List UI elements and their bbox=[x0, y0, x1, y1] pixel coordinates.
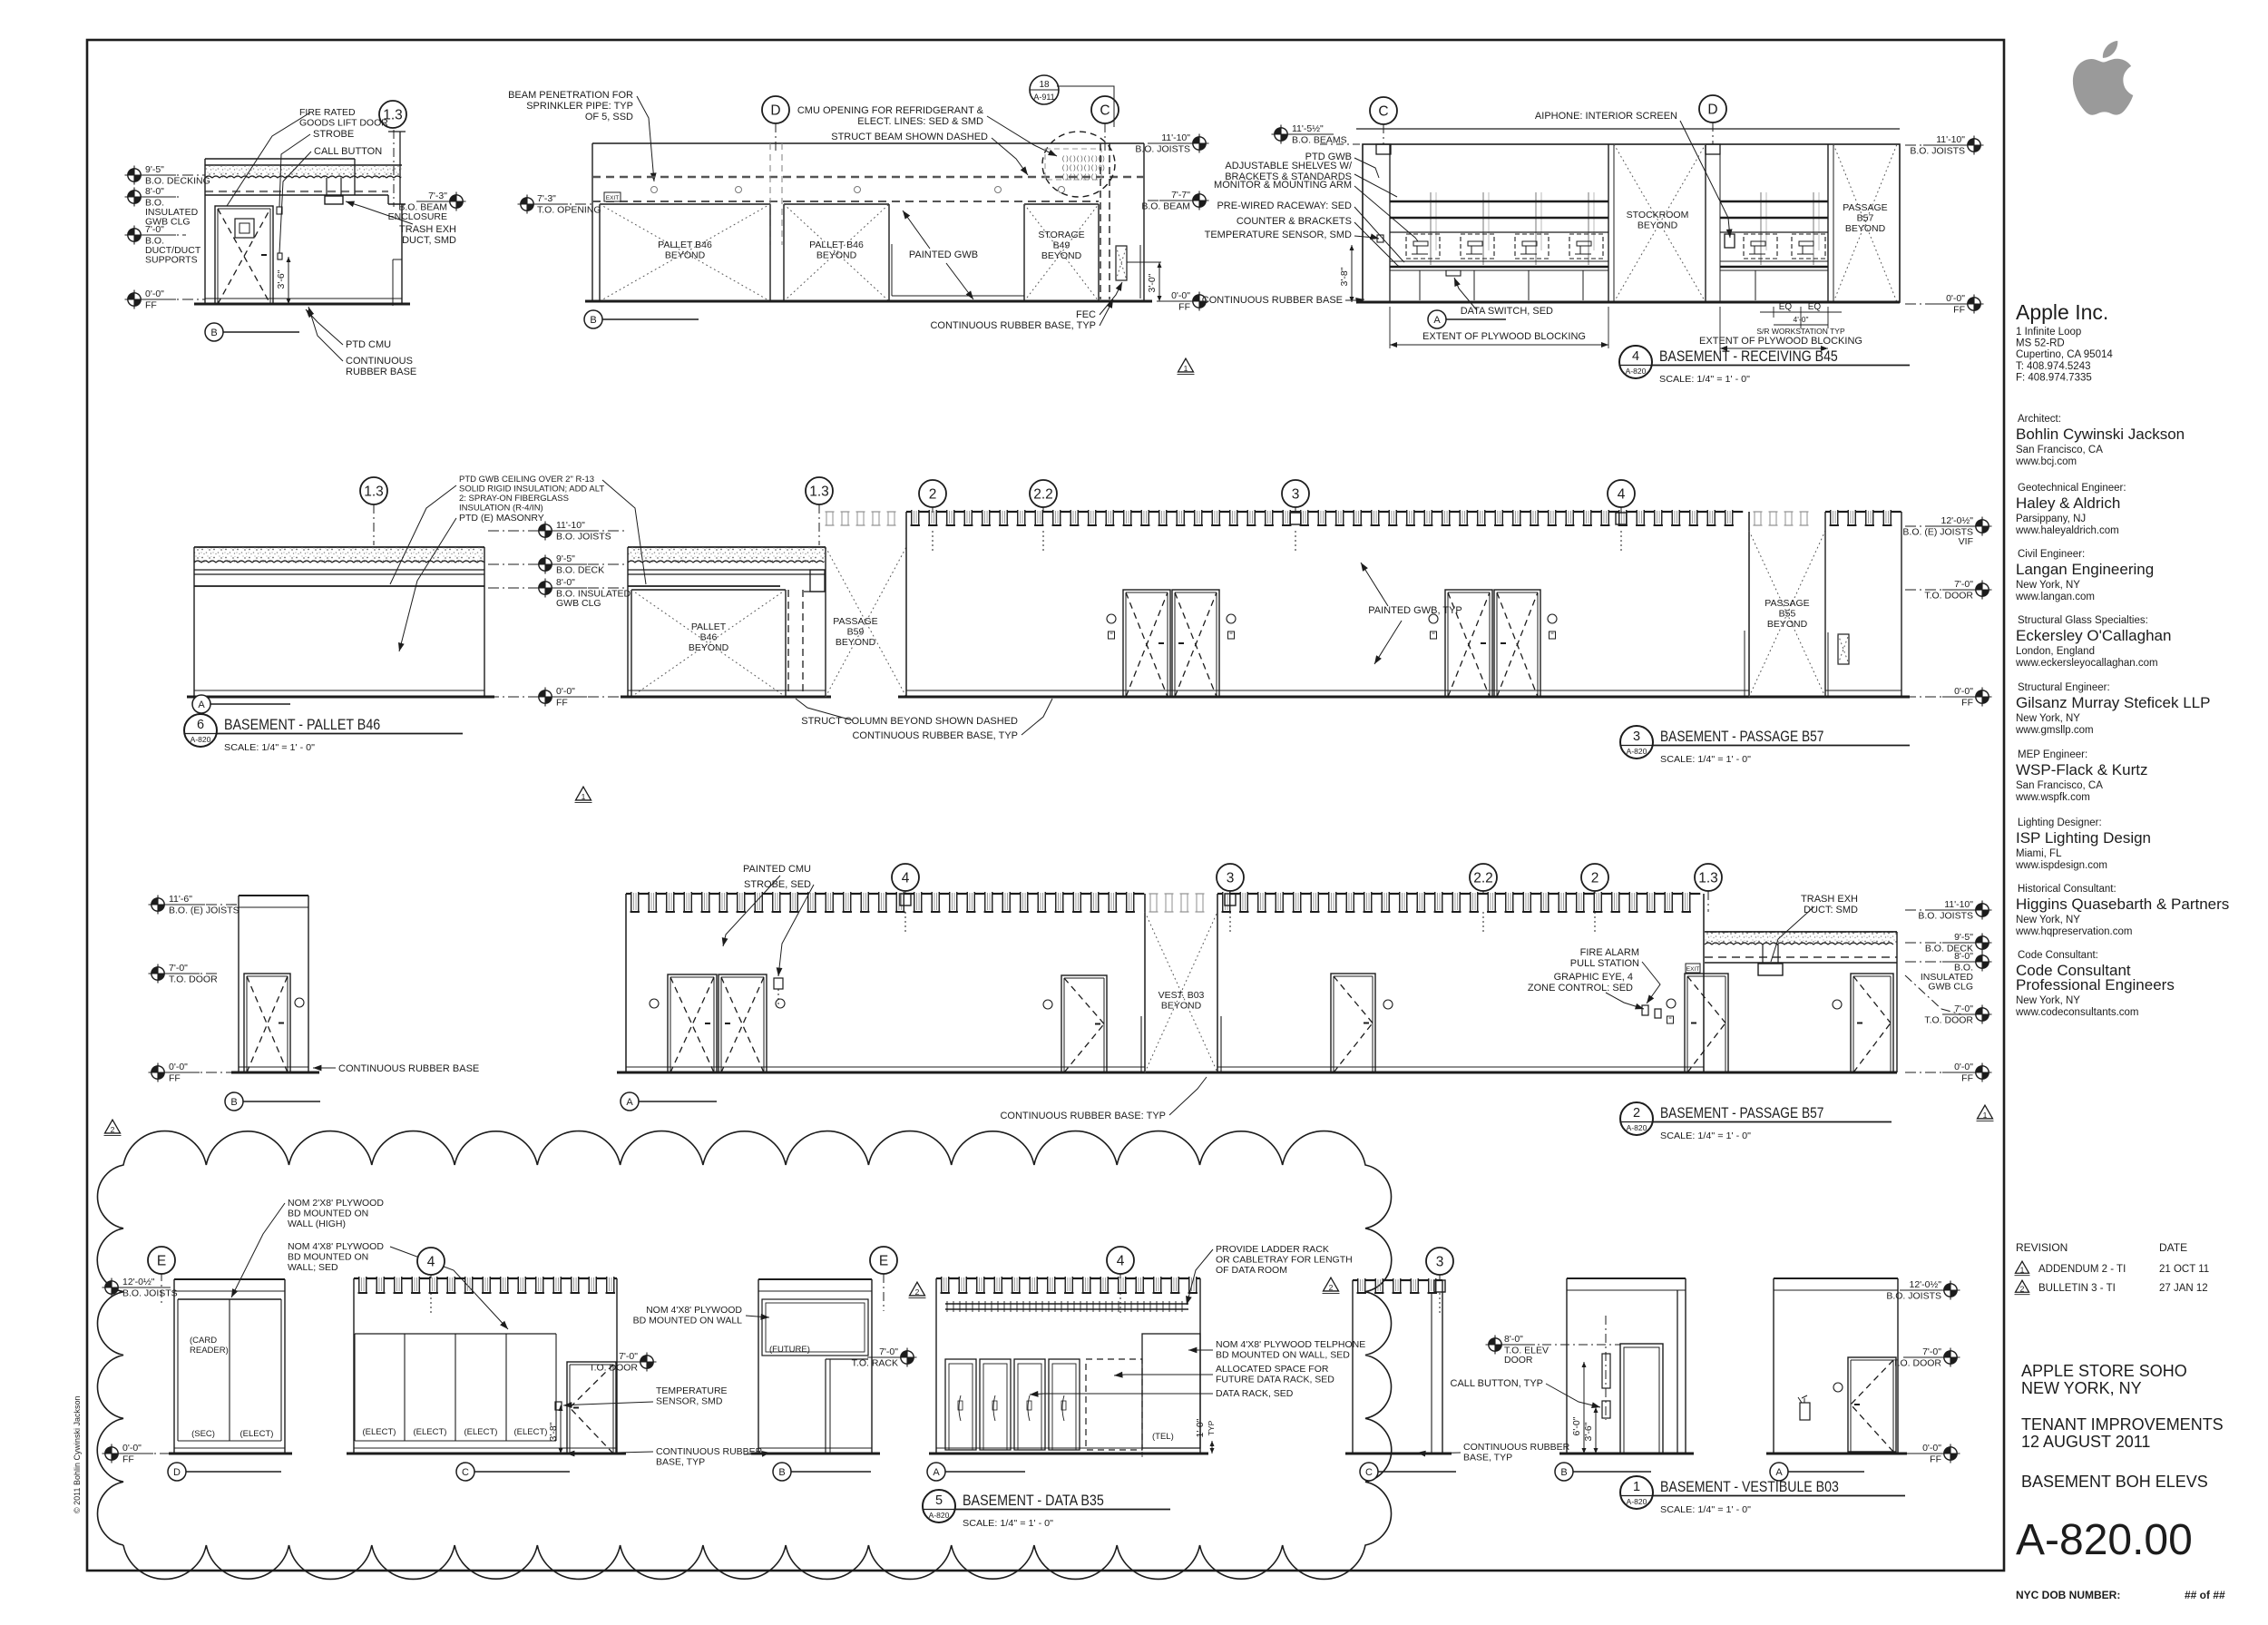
svg-text:BASE, TYP: BASE, TYP bbox=[656, 1457, 705, 1468]
svg-text:FF: FF bbox=[1961, 698, 1973, 709]
svg-text:BD MOUNTED ON: BD MOUNTED ON bbox=[288, 1252, 368, 1263]
vest A datum 7-0 TO DOOR bbox=[1903, 1356, 1943, 1358]
svg-text:1'-0": 1'-0" bbox=[1195, 1418, 1206, 1437]
grid bubble 2.2 band2 bbox=[1030, 480, 1057, 507]
warning triangle 1 band3 right bbox=[1978, 1105, 1993, 1119]
section marker A band3 bbox=[621, 1092, 639, 1111]
receiving right workstation area standards bbox=[1760, 192, 1762, 265]
svg-text:BEAM PENETRATION FOR: BEAM PENETRATION FOR bbox=[508, 90, 633, 101]
data racks 4 doors bbox=[945, 1359, 976, 1450]
strobe symbol band3 bbox=[774, 978, 783, 989]
svg-text:PASSAGE: PASSAGE bbox=[833, 616, 877, 627]
svg-text:T: 408.974.5243: T: 408.974.5243 bbox=[2016, 361, 2091, 372]
elevation B goods-lift: datum 0-0 FF bbox=[142, 299, 205, 300]
data D board divider and bottom bbox=[229, 1299, 230, 1441]
drawing 6 concrete deck band bbox=[194, 546, 484, 548]
svg-text:4: 4 bbox=[1618, 487, 1626, 503]
svg-text:MEP Engineer:: MEP Engineer: bbox=[2018, 749, 2087, 760]
svg-text:C: C bbox=[462, 1467, 469, 1478]
svg-text:TRASH EXH: TRASH EXH bbox=[399, 224, 456, 235]
warning triangle 2 near vest C bbox=[1324, 1277, 1339, 1291]
title 6 BASEMENT - PALLET B46 bbox=[184, 714, 217, 747]
band3 single door in wall A bbox=[1061, 975, 1107, 1072]
drawing 6 wall edges bbox=[193, 547, 195, 697]
svg-text:FF: FF bbox=[1930, 1454, 1941, 1465]
svg-text:8'-0": 8'-0" bbox=[1504, 1334, 1523, 1345]
aiphone interior screen box bbox=[1725, 234, 1735, 248]
vestibule elevation A: wall bbox=[1774, 1277, 1898, 1279]
grid bubble D band1 bbox=[762, 96, 789, 123]
svg-text:FF: FF bbox=[145, 300, 157, 311]
svg-text:2: SPRAY-ON FIBERGLASS: 2: SPRAY-ON FIBERGLASS bbox=[459, 494, 569, 504]
svg-text:STRUCT BEAM SHOWN DASHED: STRUCT BEAM SHOWN DASHED bbox=[831, 132, 988, 142]
grid bubble E data B bbox=[870, 1247, 897, 1274]
svg-text:PASSAGE: PASSAGE bbox=[1843, 202, 1887, 213]
data B35 elevation B: wall bbox=[758, 1278, 872, 1280]
band3 datum 7-0 TO DOOR bbox=[166, 973, 218, 974]
band3 right section edges bbox=[1896, 932, 1898, 1072]
svg-text:PALLET B46: PALLET B46 bbox=[809, 240, 864, 250]
band3 long wall piece A crenellated top bbox=[626, 893, 631, 895]
svg-text:0'-0": 0'-0" bbox=[122, 1443, 142, 1454]
svg-text:www.codeconsultants.com: www.codeconsultants.com bbox=[2015, 1007, 2139, 1018]
svg-text:Code Consultant:: Code Consultant: bbox=[2018, 950, 2098, 961]
band3 door pair knobs bbox=[650, 999, 659, 1008]
svg-text:New York, NY: New York, NY bbox=[2016, 713, 2080, 724]
EXIT sign band3 bbox=[1686, 964, 1700, 973]
svg-text:11'-10": 11'-10" bbox=[1936, 134, 1965, 145]
band3 rubber base lines bbox=[626, 1066, 1145, 1068]
grid bubble 2 band2 bbox=[919, 480, 946, 507]
svg-text:CONTINUOUS: CONTINUOUS bbox=[346, 356, 413, 367]
band2 long wall crenellated top bbox=[906, 511, 912, 513]
svg-text:Miami, FL: Miami, FL bbox=[2016, 848, 2062, 859]
data D board top bbox=[178, 1298, 281, 1300]
svg-text:1: 1 bbox=[1184, 364, 1188, 373]
band3 wall piece B crenellated top bbox=[1217, 893, 1223, 895]
svg-text:5: 5 bbox=[935, 1493, 943, 1508]
vest B floor bbox=[1559, 1453, 1694, 1455]
svg-text:6'-0": 6'-0" bbox=[1571, 1416, 1582, 1435]
svg-text:EXTENT OF PLYWOOD BLOCKING: EXTENT OF PLYWOOD BLOCKING bbox=[1699, 336, 1862, 347]
svg-text:www.haleyaldrich.com: www.haleyaldrich.com bbox=[2015, 525, 2119, 536]
svg-text:BASEMENT - PALLET B46: BASEMENT - PALLET B46 bbox=[224, 716, 380, 733]
svg-text:2: 2 bbox=[2020, 1284, 2025, 1293]
temperature sensor SMD symbol bbox=[1377, 235, 1383, 242]
grid bubble C receiving bbox=[1370, 97, 1397, 124]
drawing 6 wall top line bbox=[194, 546, 484, 548]
warning triangle 1 below drawing6 bbox=[576, 787, 591, 800]
svg-text:()()()()(): ()()()()() bbox=[1061, 174, 1098, 181]
svg-text:7'-3": 7'-3" bbox=[537, 193, 556, 204]
svg-text:VEST. B03: VEST. B03 bbox=[1158, 990, 1205, 1001]
elevation B goods-lift: datum 8-0 B.O. INSULATED GWB CLG bbox=[142, 196, 181, 198]
svg-text:1: 1 bbox=[1983, 1111, 1988, 1120]
svg-text:BASEMENT - RECEIVING B45: BASEMENT - RECEIVING B45 bbox=[1659, 348, 1838, 365]
revision row 1 bbox=[2016, 1261, 2029, 1273]
svg-text:(ELECT): (ELECT) bbox=[240, 1429, 274, 1439]
svg-text:BASEMENT BOH ELEVS: BASEMENT BOH ELEVS bbox=[2021, 1473, 2208, 1491]
band3 datum 0-0 FF bbox=[166, 1072, 231, 1073]
svg-text:()()()()()(): ()()()()()() bbox=[1061, 156, 1105, 163]
data D floor bbox=[169, 1453, 292, 1455]
svg-text:A-820: A-820 bbox=[1626, 367, 1647, 376]
svg-text:BEYOND: BEYOND bbox=[1041, 250, 1082, 261]
svg-text:7'-0": 7'-0" bbox=[619, 1351, 638, 1362]
receiving B45 counter bbox=[1390, 266, 1608, 269]
svg-text:C: C bbox=[1365, 1467, 1373, 1478]
svg-text:BEYOND: BEYOND bbox=[1767, 619, 1808, 630]
svg-text:B.O. JOISTS: B.O. JOISTS bbox=[1910, 146, 1965, 157]
svg-text:11'-5½": 11'-5½" bbox=[1292, 123, 1324, 134]
svg-text:BASEMENT - VESTIBULE B03: BASEMENT - VESTIBULE B03 bbox=[1660, 1478, 1839, 1495]
receiving right datums 11-10 BO JOISTS bbox=[1905, 144, 1967, 146]
data B datum 7-0 TO RACK bbox=[875, 1356, 900, 1358]
svg-text:Gilsanz Murray Steficek LLP: Gilsanz Murray Steficek LLP bbox=[2016, 694, 2210, 711]
svg-text:A: A bbox=[626, 1097, 633, 1108]
svg-text:(ELECT): (ELECT) bbox=[514, 1427, 548, 1437]
svg-text:STRUCT COLUMN BEYOND SHOWN DAS: STRUCT COLUMN BEYOND SHOWN DASHED bbox=[801, 716, 1018, 727]
svg-text:2.2: 2.2 bbox=[1033, 487, 1053, 503]
svg-text:E: E bbox=[879, 1254, 888, 1269]
band3 right section deck band bbox=[1705, 931, 1897, 933]
grid bubble 2.2 band3 bbox=[1470, 864, 1497, 891]
svg-text:WALL; SED: WALL; SED bbox=[288, 1262, 338, 1273]
gray dashed rect CMU opening bbox=[1045, 149, 1101, 180]
svg-text:BASEMENT - DATA B35: BASEMENT - DATA B35 bbox=[963, 1492, 1104, 1509]
receiving B45 floor line bbox=[1356, 301, 1900, 304]
sheet border frame bbox=[87, 40, 2004, 1571]
svg-text:2: 2 bbox=[915, 1287, 920, 1297]
svg-text:B.O. JOISTS: B.O. JOISTS bbox=[1918, 911, 1973, 922]
svg-text:B57: B57 bbox=[1857, 213, 1874, 224]
band3 door pair left leaf bbox=[668, 974, 717, 1072]
fire alarm pull station symbol bbox=[1642, 1005, 1648, 1015]
vest A datum 0-0 FF bbox=[1903, 1453, 1943, 1454]
receiving B45 inner left column line bbox=[1389, 144, 1391, 302]
right datum 0-0 FF band1 middle bbox=[1157, 300, 1192, 302]
svg-text:12 AUGUST 2011: 12 AUGUST 2011 bbox=[2021, 1433, 2150, 1451]
grid bubble E data bbox=[148, 1247, 175, 1274]
svg-text:CONTINUOUS RUBBER BASE: CONTINUOUS RUBBER BASE bbox=[338, 1063, 479, 1074]
svg-text:NOM 2'X8' PLYWOOD: NOM 2'X8' PLYWOOD bbox=[288, 1198, 384, 1209]
top-middle elevation: left edge bbox=[591, 143, 593, 301]
band3 small elevation door bbox=[244, 974, 290, 1072]
svg-text:PROVIDE LADDER RACK: PROVIDE LADDER RACK bbox=[1216, 1244, 1329, 1255]
svg-text:OR CABLETRAY FOR LENGTH: OR CABLETRAY FOR LENGTH bbox=[1216, 1255, 1353, 1266]
svg-text:A-820: A-820 bbox=[1627, 1123, 1647, 1132]
pallet B46 opening 2 with dotted X bbox=[783, 204, 785, 301]
svg-text:New York, NY: New York, NY bbox=[2016, 995, 2080, 1006]
svg-text:www.gmsllp.com: www.gmsllp.com bbox=[2015, 725, 2094, 736]
band2 rubber base lines bbox=[906, 690, 1749, 691]
grid bubble 2 band3 bbox=[1581, 864, 1608, 891]
band3 datums left 11-6 BO E JOISTS bbox=[166, 904, 239, 905]
svg-text:7'-0": 7'-0" bbox=[1922, 1346, 1941, 1357]
svg-text:SPRINKLER PIPE: TYP: SPRINKLER PIPE: TYP bbox=[526, 101, 633, 112]
svg-text:4: 4 bbox=[1117, 1254, 1125, 1269]
dim 3-0 storage height bbox=[1127, 261, 1161, 263]
receiving B45: datum 11-5half B.O. BEAMS bbox=[1272, 125, 1291, 144]
warning triangle 2 outside cloud top-left bbox=[105, 1120, 121, 1133]
svg-text:A-911: A-911 bbox=[1033, 93, 1054, 102]
svg-text:A: A bbox=[198, 700, 205, 710]
svg-text:()()()()()(): ()()()()()() bbox=[1061, 165, 1105, 172]
svg-text:B46: B46 bbox=[700, 632, 718, 643]
band2 right datum 7-0 TO DOOR bbox=[1905, 589, 1975, 591]
svg-text:11'-10": 11'-10" bbox=[1161, 132, 1190, 143]
ladder rack hatched strip bbox=[945, 1303, 1188, 1305]
stockroom beyond region bbox=[1608, 144, 1609, 302]
top-middle elevation: right edge bbox=[1143, 143, 1145, 301]
svg-text:New York, NY: New York, NY bbox=[2016, 915, 2080, 925]
band3 door at exit bbox=[1685, 974, 1728, 1072]
vest B03 beyond gap bbox=[1149, 894, 1151, 912]
svg-text:CONTINUOUS RUBBER: CONTINUOUS RUBBER bbox=[1463, 1442, 1570, 1453]
svg-text:2: 2 bbox=[111, 1125, 115, 1134]
svg-text:T.O. DOOR: T.O. DOOR bbox=[169, 974, 218, 985]
svg-text:C: C bbox=[1378, 104, 1388, 120]
svg-text:VIF: VIF bbox=[1959, 536, 1973, 547]
band2 long wall right edge bbox=[1748, 512, 1750, 697]
svg-text:www.langan.com: www.langan.com bbox=[2015, 592, 2095, 602]
pallet piece gwb ceiling bbox=[628, 585, 780, 587]
data B35 elevation D: wall bbox=[174, 1278, 285, 1280]
goods lift door window bbox=[235, 219, 254, 238]
pallet piece opening with dotted X bbox=[631, 590, 632, 697]
svg-text:PALLET: PALLET bbox=[691, 622, 727, 632]
svg-text:DUCT: SMD: DUCT: SMD bbox=[1804, 905, 1858, 915]
revision cloud bbox=[97, 1131, 1392, 1580]
grid bubble 4 band3 bbox=[892, 864, 919, 891]
passage B57 beyond region bbox=[1827, 144, 1829, 302]
svg-text:B.O. JOISTS: B.O. JOISTS bbox=[122, 1288, 178, 1299]
svg-text:PTD (E) MASONRY: PTD (E) MASONRY bbox=[459, 513, 544, 524]
svg-text:EQ: EQ bbox=[1779, 302, 1793, 312]
svg-text:London, England: London, England bbox=[2016, 646, 2095, 657]
svg-text:SCALE: 1/4" = 1' - 0": SCALE: 1/4" = 1' - 0" bbox=[224, 742, 315, 753]
warning triangle 1 band1 bbox=[1178, 358, 1194, 372]
warning triangle 2 near data B bbox=[910, 1282, 925, 1296]
data C floor bbox=[347, 1453, 626, 1455]
goods lift elevation: right wall edge bbox=[401, 204, 403, 304]
svg-text:T.O. OPENING: T.O. OPENING bbox=[537, 205, 601, 216]
dim 1-0 TYP data A bbox=[1141, 1379, 1143, 1457]
svg-text:B: B bbox=[1560, 1467, 1567, 1478]
svg-text:FF: FF bbox=[1178, 302, 1190, 313]
band3 wall B single door bbox=[1331, 974, 1375, 1072]
drawing 6 datum 9-5 BO DECK bbox=[488, 563, 624, 565]
band3 wall A left edge bbox=[625, 894, 627, 1072]
svg-text:NOM 4'X8' PLYWOOD TELPHONE: NOM 4'X8' PLYWOOD TELPHONE bbox=[1216, 1339, 1365, 1350]
svg-text:7'-0": 7'-0" bbox=[1954, 1003, 1973, 1014]
section marker B data bbox=[773, 1463, 791, 1481]
dim 3-6 call button height bbox=[288, 257, 289, 304]
svg-text:9'-5": 9'-5" bbox=[556, 553, 575, 564]
svg-text:A-820: A-820 bbox=[929, 1511, 950, 1520]
top-middle elevation: lower dashed line 7-3 level bbox=[592, 201, 1099, 202]
goods lift elevation: left wall edge bbox=[204, 159, 206, 304]
data C door bbox=[567, 1362, 616, 1454]
section marker B top-middle bbox=[584, 310, 602, 328]
svg-text:BEYOND: BEYOND bbox=[816, 250, 857, 261]
grid bubble 3 band2 bbox=[1282, 480, 1309, 507]
CMU chase dashed column bbox=[1100, 143, 1101, 299]
svg-text:CALL BUTTON: CALL BUTTON bbox=[314, 146, 382, 157]
svg-text:B: B bbox=[230, 1097, 237, 1108]
svg-text:Langan Engineering: Langan Engineering bbox=[2016, 561, 2154, 578]
svg-text:18: 18 bbox=[1039, 80, 1050, 90]
pallet piece: grid bubble 1.3 bbox=[806, 477, 833, 504]
svg-text:CONTINUOUS RUBBER BASE: TYP: CONTINUOUS RUBBER BASE: TYP bbox=[1000, 1111, 1166, 1121]
svg-text:4: 4 bbox=[1632, 349, 1639, 364]
svg-text:MS 52-RD: MS 52-RD bbox=[2016, 338, 2065, 349]
svg-text:APPLE STORE SOHO: APPLE STORE SOHO bbox=[2021, 1362, 2187, 1380]
svg-text:TEMPERATURE: TEMPERATURE bbox=[656, 1385, 728, 1396]
svg-text:T.O. RACK: T.O. RACK bbox=[852, 1358, 898, 1369]
svg-text:0'-0": 0'-0" bbox=[1954, 686, 1973, 697]
svg-text:A-820: A-820 bbox=[1627, 1497, 1647, 1506]
svg-text:0'-0": 0'-0" bbox=[1946, 293, 1965, 304]
svg-text:8'-0": 8'-0" bbox=[145, 186, 164, 197]
svg-text:(ELECT): (ELECT) bbox=[363, 1427, 396, 1437]
section marker A drawing6 bbox=[192, 695, 210, 713]
svg-text:12'-0½": 12'-0½" bbox=[1941, 515, 1973, 526]
svg-text:SENSOR, SMD: SENSOR, SMD bbox=[656, 1396, 723, 1407]
band2 long wall: light joist ticks beyond at left bbox=[826, 512, 827, 525]
grid bubble 4 band2 bbox=[1608, 480, 1635, 507]
sprinkler pipe circles typ of 5 bbox=[651, 187, 658, 193]
telephone board rect bbox=[1142, 1334, 1200, 1448]
grid bubble 3 vest bbox=[1426, 1248, 1453, 1275]
svg-text:Higgins Quasebarth & Partners: Higgins Quasebarth & Partners bbox=[2016, 896, 2229, 913]
goods lift elevation: concrete deck band bbox=[205, 164, 402, 166]
svg-text:FF: FF bbox=[1961, 1073, 1973, 1084]
svg-text:ZONE CONTROL: SED: ZONE CONTROL: SED bbox=[1528, 983, 1633, 994]
svg-text:2: 2 bbox=[1329, 1283, 1334, 1292]
section marker A receiving bbox=[1428, 310, 1446, 328]
band2 door pair 2 right leaf bbox=[1494, 590, 1540, 697]
svg-text:NOM 4'X8' PLYWOOD: NOM 4'X8' PLYWOOD bbox=[646, 1305, 742, 1316]
vest B datum 8-0 TO ELEV DOOR bbox=[1503, 1344, 1542, 1346]
svg-text:STOCKROOM: STOCKROOM bbox=[1627, 210, 1689, 220]
svg-text:B: B bbox=[778, 1467, 785, 1478]
svg-text:WSP-Flack & Kurtz: WSP-Flack & Kurtz bbox=[2016, 761, 2147, 778]
svg-text:2: 2 bbox=[1591, 871, 1599, 886]
svg-text:ISP Lighting Design: ISP Lighting Design bbox=[2016, 829, 2151, 847]
svg-text:SCALE: 1/4" = 1' - 0": SCALE: 1/4" = 1' - 0" bbox=[963, 1518, 1053, 1529]
svg-text:3'-8": 3'-8" bbox=[548, 1422, 559, 1441]
svg-text:1: 1 bbox=[582, 792, 586, 801]
top-middle elevation: floor line bbox=[585, 300, 1152, 303]
band2 right piece door window bbox=[1838, 634, 1849, 664]
svg-text:BEYOND: BEYOND bbox=[1845, 223, 1886, 234]
svg-text:3: 3 bbox=[1633, 729, 1640, 744]
svg-text:Geotechnical Engineer:: Geotechnical Engineer: bbox=[2018, 483, 2126, 494]
svg-text:S/R WORKSTATION TYP: S/R WORKSTATION TYP bbox=[1756, 327, 1845, 336]
svg-text:Parsippany, NJ: Parsippany, NJ bbox=[2016, 514, 2086, 524]
svg-text:Bohlin Cywinski Jackson: Bohlin Cywinski Jackson bbox=[2016, 426, 2185, 443]
svg-text:Eckersley O'Callaghan: Eckersley O'Callaghan bbox=[2016, 627, 2171, 644]
band3 wall B left edge bbox=[1217, 894, 1218, 1072]
svg-text:A: A bbox=[1775, 1467, 1783, 1478]
svg-text:ELECT. LINES: SED & SMD: ELECT. LINES: SED & SMD bbox=[857, 116, 983, 127]
receiving right datum 0-0 FF bbox=[1905, 303, 1967, 305]
svg-text:PULL STATION: PULL STATION bbox=[1570, 958, 1639, 969]
svg-text:7'-0": 7'-0" bbox=[169, 963, 188, 974]
vestibule elevation B: wall bbox=[1567, 1277, 1686, 1279]
pallet B46 opening 1 with dotted X bbox=[599, 204, 601, 301]
band3 right datums 11-10 BO JOISTS bbox=[1905, 909, 1975, 911]
svg-text:B.O. (E) JOISTS: B.O. (E) JOISTS bbox=[169, 905, 240, 916]
passage B55 beyond dotted X bbox=[1754, 512, 1755, 525]
svg-text:BEYOND: BEYOND bbox=[689, 642, 729, 653]
section marker A vest bbox=[1770, 1463, 1788, 1481]
grid bubble 3 band3 bbox=[1217, 864, 1244, 891]
vest B dims 6-0 and 3-6 bbox=[1583, 1362, 1585, 1454]
svg-text:0'-0": 0'-0" bbox=[556, 686, 575, 697]
band2 door pair 1 left leaf bbox=[1123, 590, 1170, 697]
receiving right inner line bbox=[1719, 144, 1721, 302]
svg-text:7'-0": 7'-0" bbox=[1954, 579, 1973, 590]
svg-text:PAINTED GWB, TYP: PAINTED GWB, TYP bbox=[1368, 605, 1462, 616]
svg-text:FIRE ALARM: FIRE ALARM bbox=[1580, 947, 1639, 958]
band3 right datum 9-5 BO DECK bbox=[1905, 942, 1975, 944]
data D datum 12-0half BO JOISTS bbox=[120, 1287, 174, 1288]
svg-text:## of ##: ## of ## bbox=[2185, 1589, 2225, 1601]
band3 wall A right edge at vest gap bbox=[1144, 894, 1146, 1072]
section marker A data bbox=[927, 1463, 945, 1481]
svg-text:A: A bbox=[933, 1467, 940, 1478]
svg-text:11'-10": 11'-10" bbox=[1944, 899, 1973, 910]
svg-text:CONTINUOUS RUBBER: CONTINUOUS RUBBER bbox=[656, 1446, 763, 1457]
band2 door pair 1 knobs bbox=[1107, 614, 1116, 623]
gwb wall return lines bbox=[891, 244, 893, 296]
pallet piece beam pocket at right bbox=[810, 570, 825, 592]
band2 right datum 0-0 FF bbox=[1905, 696, 1975, 698]
svg-text:1: 1 bbox=[2020, 1265, 2025, 1274]
svg-text:B: B bbox=[590, 315, 596, 326]
svg-text:TENANT IMPROVEMENTS: TENANT IMPROVEMENTS bbox=[2021, 1415, 2224, 1434]
svg-text:D: D bbox=[173, 1467, 181, 1478]
svg-text:Cupertino, CA 95014: Cupertino, CA 95014 bbox=[2016, 349, 2113, 360]
drawing 6 deck lines bbox=[194, 569, 484, 571]
svg-text:PAINTED CMU: PAINTED CMU bbox=[743, 864, 811, 875]
svg-text:GWB CLG: GWB CLG bbox=[556, 598, 601, 609]
receiving right shelves bbox=[1720, 201, 1828, 202]
svg-text:NEW YORK, NY: NEW YORK, NY bbox=[2021, 1379, 2142, 1397]
band3 right section dashed gwb line bbox=[1705, 956, 1897, 958]
graphic eye symbol bbox=[1655, 1009, 1661, 1018]
svg-text:Structural Glass Specialties:: Structural Glass Specialties: bbox=[2018, 615, 2148, 626]
svg-text:4: 4 bbox=[902, 871, 910, 886]
svg-text:BD MOUNTED ON: BD MOUNTED ON bbox=[288, 1209, 368, 1219]
drawing 6 rubber base line bbox=[194, 690, 484, 691]
strobe symbol bbox=[277, 207, 282, 214]
band2 long wall floor bbox=[898, 696, 1910, 699]
svg-text:A-820.00: A-820.00 bbox=[2016, 1516, 2193, 1564]
goods lift elevation: ceiling top line bbox=[205, 158, 355, 160]
svg-text:1 Infinite Loop: 1 Infinite Loop bbox=[2016, 327, 2081, 338]
drawing 6 gwb ceiling line bbox=[194, 585, 484, 587]
receiving B45 left shelf standards bbox=[1430, 192, 1432, 265]
goods lift elevation: riser pipe at right bbox=[354, 159, 356, 195]
svg-text:2: 2 bbox=[1633, 1106, 1640, 1121]
vest A floor bbox=[1766, 1453, 1907, 1455]
svg-text:3'-8": 3'-8" bbox=[1339, 267, 1350, 286]
EQ EQ dims bbox=[1773, 307, 1774, 318]
svg-text:SCALE: 1/4" = 1' - 0": SCALE: 1/4" = 1' - 0" bbox=[1660, 1131, 1751, 1141]
